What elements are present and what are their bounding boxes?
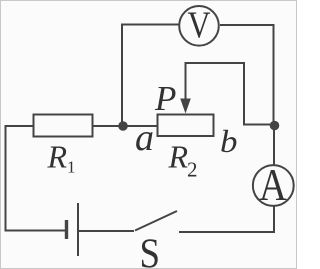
svg-text:R: R <box>47 138 68 174</box>
wire: right node to ammeter <box>273 129 275 165</box>
wire: node a up to voltmeter <box>122 25 179 128</box>
wire: left to R1 <box>5 125 34 127</box>
svg-text:1: 1 <box>67 158 76 177</box>
battery: long thin plate (+) <box>77 203 79 256</box>
wire: battery to switch contact <box>79 230 134 232</box>
svg-text:S: S <box>140 232 161 269</box>
wire: ammeter down to bottom corner <box>179 206 274 233</box>
svg-text:A: A <box>259 159 287 210</box>
ammeter A circle <box>253 165 294 206</box>
wiper arrowhead <box>180 99 191 114</box>
wire: wiper branch up-right-down <box>186 63 271 125</box>
node: junction dot right <box>270 121 280 131</box>
switch S blade <box>135 211 177 231</box>
resistor R1 <box>34 115 93 137</box>
node: junction dot left <box>118 121 128 131</box>
svg-text:2: 2 <box>187 157 198 181</box>
battery: short thick plate (-) <box>65 220 68 239</box>
voltmeter V circle <box>179 6 219 46</box>
svg-text:a: a <box>135 117 154 159</box>
svg-text:R: R <box>168 138 189 174</box>
svg-text:V: V <box>188 5 211 47</box>
wire: R1 to R2 terminal a <box>93 125 157 127</box>
svg-text:P: P <box>154 79 176 118</box>
potentiometer R2 body <box>158 115 214 137</box>
wiper arrow P <box>185 62 187 101</box>
wire: left vertical branch <box>5 125 7 231</box>
svg-text:b: b <box>220 123 238 159</box>
wire: voltmeter to right vertical down <box>220 25 274 122</box>
wire: bottom left corner to battery <box>5 230 67 232</box>
